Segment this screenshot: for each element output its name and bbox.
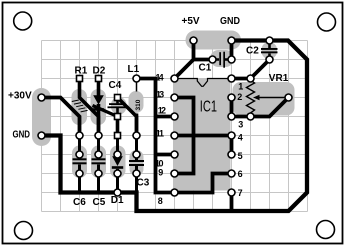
svg-text:+30V: +30V	[8, 91, 32, 102]
pad VR1 top	[247, 75, 254, 82]
body: L1	[129, 91, 144, 113]
pad pin 7	[228, 189, 235, 196]
wire: rail to pin 12	[156, 115, 175, 119]
svg-text:C6: C6	[73, 197, 86, 208]
pad C5 top	[95, 151, 102, 158]
pad pin 6	[228, 170, 235, 177]
pad D1 top junction	[115, 133, 121, 139]
wire: +5V pad down and diagonal to pin 14	[175, 41, 194, 79]
pad pin 1	[228, 75, 235, 82]
svg-text:2: 2	[237, 92, 242, 102]
pad pin 11	[171, 132, 178, 139]
pad pin 4	[228, 132, 235, 139]
pad pin 12	[171, 113, 178, 120]
wire: +5V node to C1 left	[194, 58, 213, 62]
body: IC1	[173, 78, 231, 191]
wire: pin 2 to pin 3	[230, 98, 234, 117]
svg-text:12: 12	[158, 105, 166, 115]
svg-text:9: 9	[158, 168, 163, 178]
svg-text:C4: C4	[109, 80, 122, 91]
component bodies (gray)	[32, 31, 295, 191]
svg-text:7: 7	[238, 188, 243, 198]
pad C2 bottom	[266, 56, 273, 63]
pad VR1 wiper	[285, 94, 292, 101]
pad pin 5	[228, 151, 235, 158]
svg-text:11: 11	[156, 128, 164, 138]
svg-text:14: 14	[156, 72, 164, 82]
pad C4 bottom	[115, 114, 121, 120]
pad node D2 bottom	[95, 132, 102, 139]
pad C2 top	[266, 37, 273, 44]
svg-text:R1: R1	[75, 66, 88, 77]
body: C6	[72, 146, 87, 179]
body: C1	[210, 50, 234, 67]
pad node R1 bottom	[76, 132, 83, 139]
resistor R1	[72, 79, 99, 136]
pad pin 13	[171, 94, 178, 101]
mounting hole top-right	[318, 13, 336, 31]
wire: pin 1 to VR1 top	[232, 77, 251, 81]
svg-text:C1: C1	[199, 63, 212, 74]
capacitor C6	[73, 136, 87, 193]
inductor L1	[135, 79, 142, 136]
svg-text:C2: C2	[246, 46, 259, 57]
body: C4	[111, 97, 127, 115]
wire: pin 7 to bottom ground	[230, 193, 234, 212]
wire: C4 bottom to D1 top	[116, 117, 120, 136]
wire: L1 top to rail, down to pin 8 and pin 6	[137, 79, 232, 193]
pad pin 14	[171, 75, 178, 82]
wire: pin 3 to VR1 bottom	[232, 115, 251, 119]
pad D1 top	[114, 151, 121, 158]
wire: rail to pin 10	[156, 153, 175, 157]
wire: pin 4 to pin 5	[230, 136, 234, 155]
pad pin 10	[171, 151, 178, 158]
IC1 notch	[173, 79, 231, 87]
svg-text:D2: D2	[93, 66, 106, 77]
wire: +30V pad to C6 top junction	[42, 98, 80, 136]
svg-text:5: 5	[238, 151, 243, 161]
capacitor C4	[108, 98, 127, 117]
svg-text:4: 4	[238, 133, 243, 143]
mounting hole top-left	[14, 12, 32, 30]
diode D1	[112, 136, 123, 193]
body: VR1	[233, 82, 295, 116]
body: C5	[91, 146, 106, 179]
wire: pin 13 to pin 9 internal	[175, 98, 194, 174]
pads (round)	[38, 37, 292, 196]
pad GND top	[228, 37, 235, 44]
pad L1 top	[133, 75, 140, 82]
mounting hole bottom-left	[15, 222, 33, 240]
capacitor C1	[213, 52, 232, 68]
pad node L1 bottom	[133, 132, 140, 139]
svg-text:GND: GND	[220, 16, 240, 27]
pad pin 3	[228, 113, 235, 120]
wire: pin 11 to pin 4	[175, 134, 232, 138]
potentiometer VR1	[247, 80, 289, 117]
pad R1 top	[77, 76, 83, 82]
wire: GND top pad to C1 right	[230, 41, 234, 60]
svg-text:C5: C5	[93, 197, 106, 208]
svg-text:D1: D1	[111, 195, 124, 206]
pads (square)	[77, 76, 121, 139]
svg-text:L1: L1	[128, 64, 140, 75]
svg-text:C3: C3	[137, 178, 150, 189]
pad GND left	[38, 132, 45, 139]
pad pin 2	[228, 94, 235, 101]
wire: VR1 bottom to wiper pad	[251, 98, 289, 117]
capacitor C2	[261, 41, 278, 60]
body: C3	[130, 150, 144, 176]
svg-text:6: 6	[238, 169, 243, 179]
wire: ground loop from GND left pad around board to GND top pad	[42, 41, 308, 212]
pad VR1 bottom	[247, 113, 254, 120]
wire: D2 cathode to C4 bottom	[93, 106, 118, 117]
body: R1	[72, 89, 88, 125]
svg-text:310: 310	[135, 99, 142, 110]
svg-text:IC1: IC1	[200, 98, 217, 115]
body: +5V/GND supply capsule	[186, 31, 242, 50]
pad D1 ground junction	[114, 189, 121, 196]
svg-text:+5V: +5V	[182, 16, 200, 27]
wire: C2 bottom diagonal to VR1 top	[251, 60, 270, 79]
pad +5V	[190, 37, 197, 44]
svg-text:1: 1	[238, 81, 243, 91]
svg-text:8: 8	[158, 196, 163, 206]
body: C2	[262, 42, 278, 59]
capacitor C5	[92, 136, 106, 193]
svg-text:VR1: VR1	[269, 73, 289, 84]
wire: C4 top diagonal to L1 bottom	[118, 98, 137, 136]
pad D1 bottom	[114, 170, 121, 177]
pad C3 top	[133, 151, 140, 158]
pad C6 top	[76, 151, 83, 158]
diode D2	[93, 79, 104, 136]
svg-text:13: 13	[156, 89, 164, 99]
pad C5 bottom	[95, 170, 102, 177]
body: D1	[110, 146, 126, 179]
svg-text:GND: GND	[13, 130, 31, 141]
pad C6 bottom	[76, 170, 83, 177]
pad pin 9	[171, 170, 178, 177]
mounting hole bottom-right	[317, 221, 335, 239]
pad +30V	[38, 94, 45, 101]
pad D2 top	[96, 76, 102, 82]
pad C1 left	[209, 56, 216, 63]
pad pin 8	[171, 189, 178, 196]
pad C4 top	[115, 95, 121, 101]
capacitor C3	[129, 136, 144, 193]
body: +30V/GND input capsule	[32, 88, 51, 146]
pad C3 bottom	[133, 170, 140, 177]
body: D2	[91, 89, 107, 125]
pad C1 right	[228, 56, 235, 63]
svg-text:3: 3	[238, 119, 243, 129]
wires (thick traces)	[42, 41, 308, 212]
